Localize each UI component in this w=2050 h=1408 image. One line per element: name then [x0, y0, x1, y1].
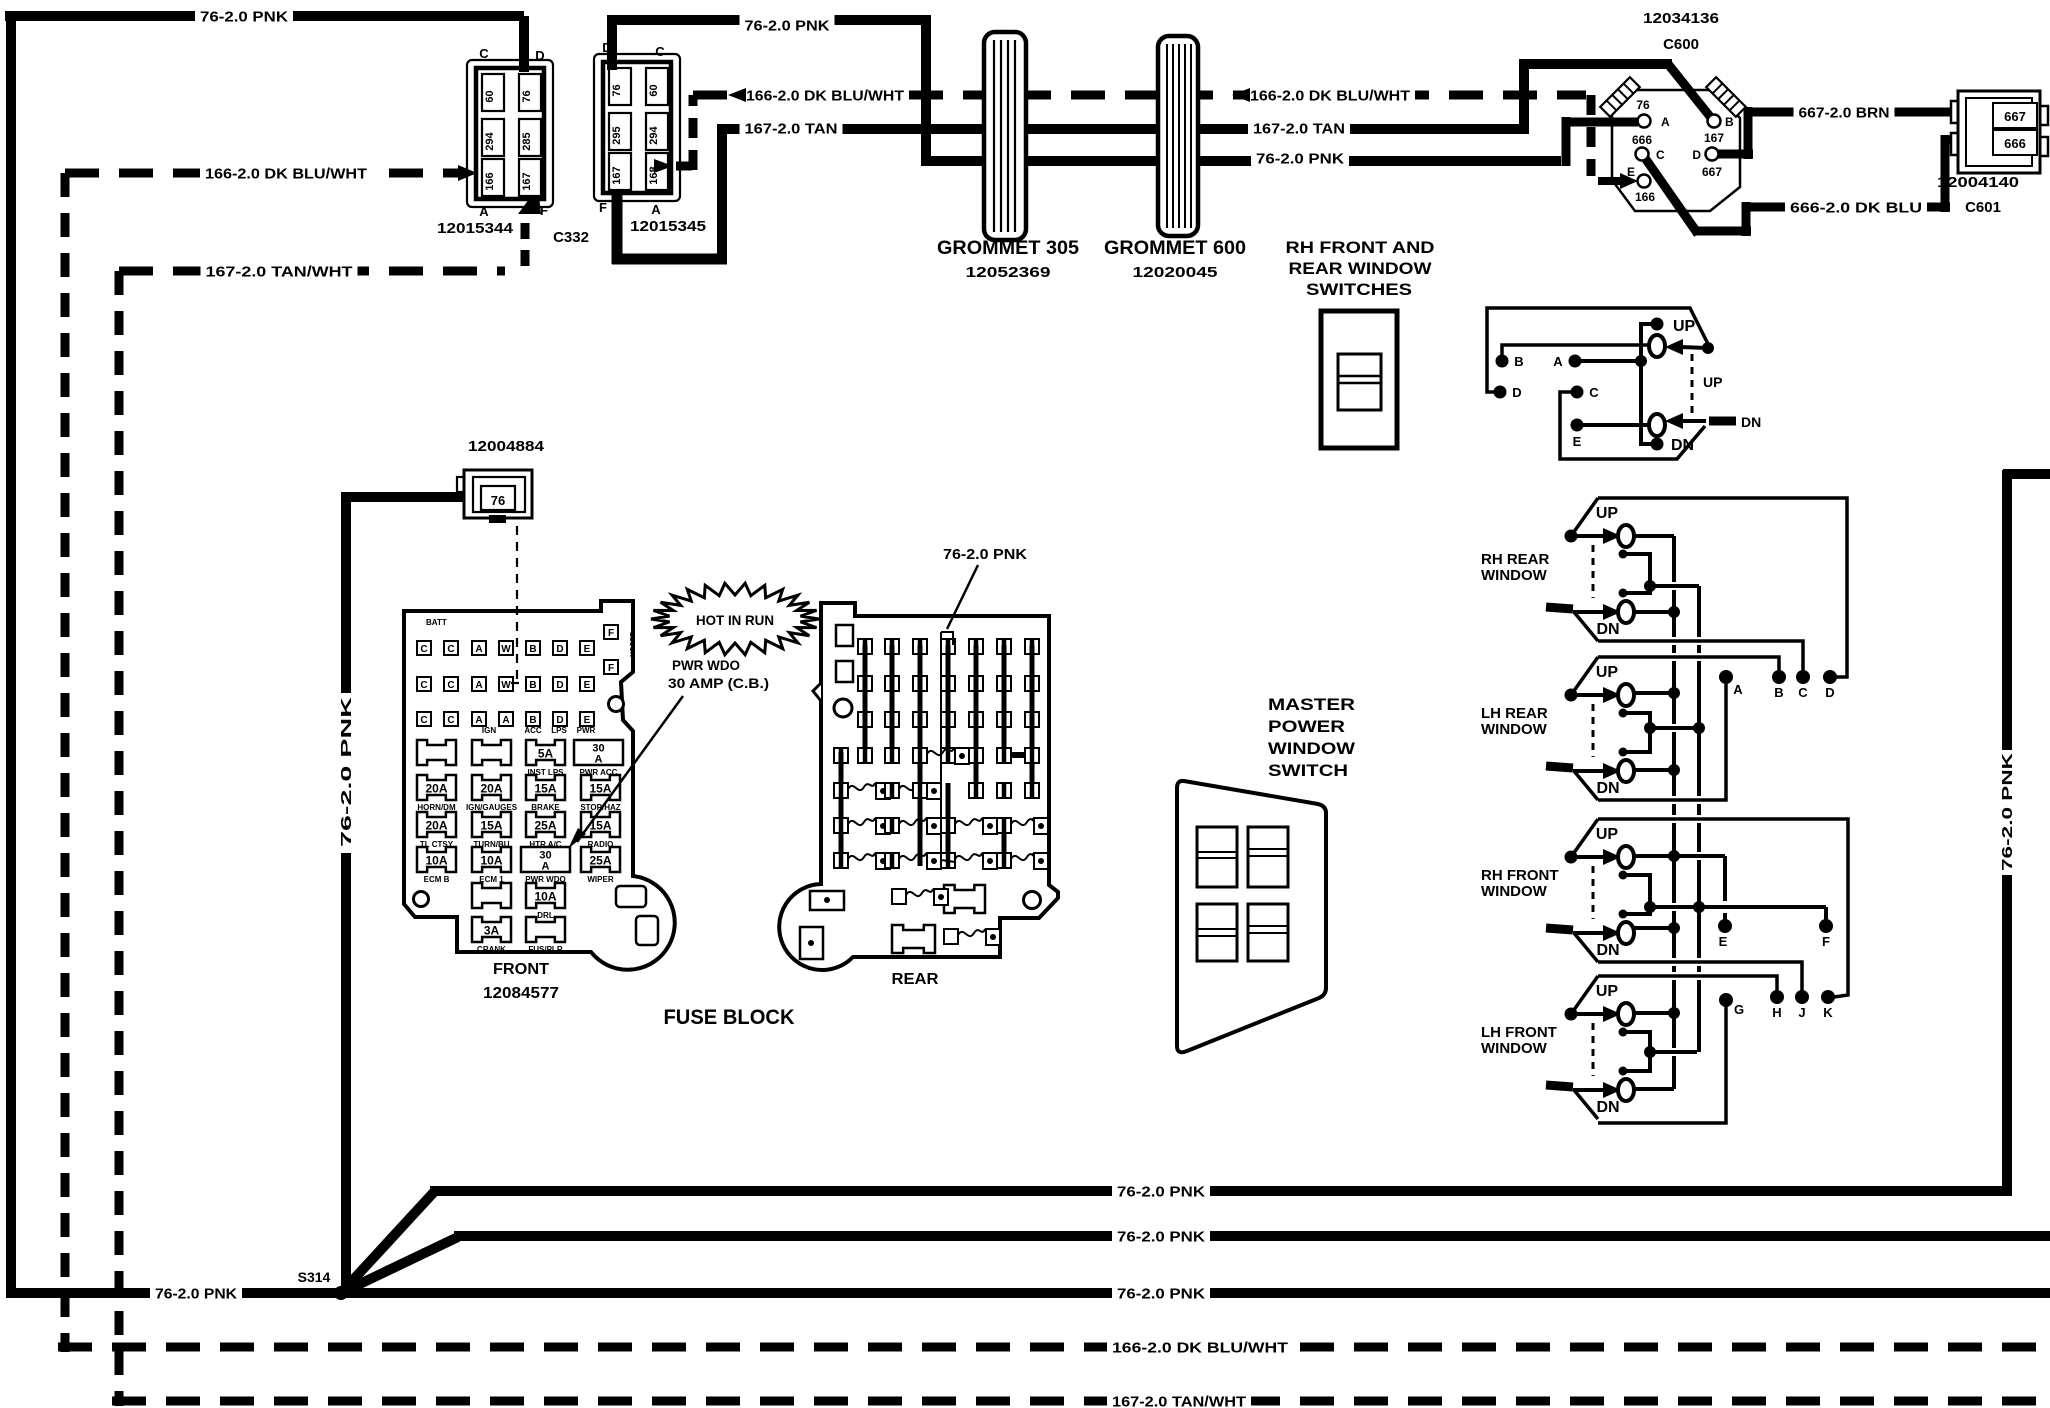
terminal B	[1772, 670, 1786, 684]
svg-text:A: A	[1733, 682, 1743, 697]
switch LH REAR UP arrow	[1571, 693, 1604, 697]
svg-text:76: 76	[491, 493, 505, 508]
splice S314	[334, 1286, 348, 1300]
svg-text:MASTER: MASTER	[1268, 695, 1355, 714]
wire LH REAR DN to bus1	[1634, 768, 1674, 772]
fuse PWR WDO 30A	[521, 847, 570, 872]
switch RH REAR WINDOW outline top diagonal	[1571, 498, 1598, 536]
pin 167	[609, 153, 631, 190]
fuse row A	[417, 740, 456, 765]
terminal D	[1823, 670, 1837, 684]
svg-text:C: C	[1656, 148, 1665, 162]
svg-text:ACC: ACC	[524, 726, 542, 735]
svg-text:76-2.0 PNK: 76-2.0 PNK	[338, 697, 355, 847]
wire 76-2.0 PNK riser into C332 pin D	[519, 16, 529, 72]
svg-text:30 AMP (C.B.): 30 AMP (C.B.)	[668, 675, 769, 691]
svg-text:A: A	[475, 715, 482, 726]
label 76-2.0 PNK bottom run 1	[1112, 1180, 1210, 1202]
grommet 600	[1158, 36, 1198, 236]
svg-text:E: E	[1719, 934, 1728, 949]
front block cutout 1	[616, 886, 646, 907]
svg-text:K: K	[1823, 1005, 1833, 1020]
wire 667-2.0 BRN to C601	[1886, 108, 1958, 117]
svg-text:C: C	[420, 680, 427, 691]
switch RH FRONT outline bottom diagonal	[1574, 933, 1598, 962]
svg-text:C: C	[1798, 685, 1808, 700]
svg-text:UP: UP	[1596, 664, 1619, 681]
terminal C	[1796, 670, 1810, 684]
grommet 305	[984, 32, 1026, 240]
pin 76	[519, 74, 541, 111]
svg-text:B: B	[529, 644, 536, 655]
arrow into C332 pin F	[518, 187, 541, 214]
svg-text:UP: UP	[1596, 983, 1619, 1000]
C601 pin 666	[1993, 130, 2037, 155]
svg-text:RH FRONT AND: RH FRONT AND	[1286, 238, 1435, 257]
rear block left notch	[813, 683, 821, 701]
terminal G	[1719, 993, 1733, 1007]
fuse row D	[417, 847, 456, 872]
svg-text:DN: DN	[1596, 942, 1619, 959]
fuse block REAR outline	[779, 603, 1058, 970]
arrow into C332 pin 166	[458, 165, 477, 181]
rear block vertical buses	[863, 645, 868, 760]
label 167-2.0 TAN/WHT bottom	[1107, 1390, 1251, 1408]
svg-text:GROMMET 600: GROMMET 600	[1104, 238, 1246, 259]
label 76-2.0 PNK bottom-left	[150, 1282, 242, 1304]
svg-text:B: B	[1774, 685, 1783, 700]
svg-text:A: A	[502, 715, 509, 726]
front block F cavity boxes	[604, 625, 618, 639]
svg-text:76-2.0 PNK: 76-2.0 PNK	[1256, 150, 1344, 167]
svg-text:12004884: 12004884	[468, 438, 545, 455]
rear block H-bridges	[948, 752, 976, 758]
svg-text:D: D	[1692, 148, 1701, 162]
pin 76	[609, 68, 631, 105]
svg-text:C: C	[447, 715, 454, 726]
switch RH REAR DN contact	[1618, 601, 1634, 623]
svg-text:D: D	[535, 48, 544, 63]
wire A to bus	[1575, 359, 1641, 363]
svg-text:C: C	[479, 46, 489, 61]
svg-text:10A: 10A	[425, 854, 447, 868]
svg-text:167: 167	[1704, 131, 1724, 145]
wire 76-2.0 PNK bottom horizontal through S314	[11, 1288, 2050, 1298]
svg-text:A: A	[479, 204, 489, 219]
wire LH REAR UP to bus1	[1634, 691, 1674, 695]
bus wire 2 (common feed)	[1697, 586, 1701, 637]
svg-text:76: 76	[611, 84, 623, 96]
svg-text:W: W	[501, 644, 511, 655]
svg-text:WINDOW: WINDOW	[1268, 739, 1356, 758]
svg-text:CRANK: CRANK	[477, 945, 506, 954]
wire 76-2.0 PNK riser to C600 pin A	[1562, 117, 1571, 166]
rocker switch drawing	[1321, 311, 1397, 448]
wire RH FRONT common to terminal F	[1650, 905, 1826, 909]
switch LH REAR DN arrow	[1573, 769, 1604, 773]
switch LH REAR WINDOW outline top diagonal	[1571, 657, 1598, 695]
label 166-2.0 DK BLU/WHT left of grommets	[741, 84, 909, 106]
pin 294	[646, 113, 668, 150]
svg-text:12004140: 12004140	[1937, 174, 2019, 191]
svg-text:76-2.0 PNK: 76-2.0 PNK	[1117, 1228, 1205, 1245]
svg-text:B: B	[529, 715, 536, 726]
svg-text:PWR: PWR	[577, 726, 596, 735]
svg-text:FRONT: FRONT	[493, 961, 549, 978]
svg-text:DN: DN	[1596, 621, 1619, 638]
svg-text:5A: 5A	[538, 747, 554, 761]
wire C to bottom outline	[1560, 392, 1705, 459]
C600 pin D	[1706, 148, 1719, 161]
svg-text:666-2.0 DK BLU: 666-2.0 DK BLU	[1790, 199, 1922, 216]
svg-text:166-2.0 DK BLU/WHT: 166-2.0 DK BLU/WHT	[1250, 87, 1410, 104]
svg-text:LH FRONT: LH FRONT	[1481, 1024, 1557, 1041]
bus wire 1 (UP/DN feed)	[1672, 536, 1676, 582]
connector C600 octagon body	[1612, 90, 1740, 211]
svg-text:DRL: DRL	[537, 911, 554, 920]
svg-text:C: C	[447, 644, 454, 655]
svg-text:285: 285	[521, 132, 533, 150]
svg-text:D: D	[1512, 385, 1521, 400]
master switch rocker 1	[1197, 827, 1237, 887]
fuse PWR ACC 30A	[574, 740, 623, 765]
svg-text:SWITCHES: SWITCHES	[1306, 280, 1412, 299]
rear block row 4 clips	[834, 748, 848, 763]
pin 295	[609, 113, 631, 150]
svg-text:76-2.0 PNK: 76-2.0 PNK	[1117, 1285, 1205, 1302]
svg-text:RH FRONT: RH FRONT	[1481, 867, 1559, 884]
svg-text:REAR: REAR	[892, 971, 939, 988]
svg-text:166-2.0 DK BLU/WHT: 166-2.0 DK BLU/WHT	[1112, 1339, 1288, 1356]
wire 166-2.0 DK BLU/WHT dashed bottom horizontal	[58, 1343, 2050, 1352]
master switch body	[1177, 781, 1326, 1052]
svg-text:UP: UP	[1673, 318, 1696, 335]
switch RH FRONT DN stub	[1546, 928, 1573, 930]
svg-text:C: C	[447, 680, 454, 691]
svg-text:DN: DN	[1671, 437, 1694, 454]
rear block lower wavy pairs	[892, 889, 906, 904]
label 76-2.0 PNK bottom run 3	[1112, 1282, 1210, 1304]
wire LH FRONT top outline to terminal H	[1598, 976, 1777, 991]
switch LH FRONT UP arrow	[1571, 1012, 1604, 1016]
RH switch DN stub	[1709, 417, 1736, 426]
label 166-2.0 DK BLU/WHT bottom	[1107, 1336, 1293, 1358]
fuse row B	[417, 775, 456, 800]
svg-text:D: D	[556, 715, 563, 726]
terminal A	[1719, 670, 1733, 684]
wire 76-2.0 PNK from C332 second half	[607, 20, 617, 70]
svg-text:20A: 20A	[425, 782, 447, 796]
svg-text:76-2.0 PNK: 76-2.0 PNK	[745, 17, 830, 34]
fuse block FRONT outline	[404, 601, 675, 970]
svg-text:WIPER: WIPER	[587, 875, 613, 884]
switch LH FRONT UP contact	[1618, 1003, 1634, 1025]
svg-text:666: 666	[1632, 133, 1652, 147]
svg-text:20A: 20A	[425, 819, 447, 833]
RH switch outline left hook	[1487, 308, 1710, 392]
switch RH FRONT DN contact	[1618, 922, 1634, 944]
svg-text:667: 667	[1702, 165, 1722, 179]
wire RH REAR top outline to terminal D	[1598, 498, 1847, 677]
label 76-2.0 PNK bottom run 2	[1112, 1225, 1210, 1247]
wire LH FRONT DN to bus1 end	[1634, 1087, 1674, 1091]
svg-text:G: G	[1734, 1002, 1744, 1017]
RH switch UP terminal	[1651, 318, 1664, 331]
fuse row E	[472, 883, 511, 908]
svg-text:UP: UP	[1596, 505, 1619, 522]
pin 166	[482, 159, 504, 196]
svg-text:295: 295	[611, 126, 623, 144]
svg-text:F: F	[1822, 934, 1830, 949]
C600 lock tab right	[1706, 77, 1746, 117]
svg-text:DN: DN	[1741, 414, 1761, 430]
switch LH FRONT DN arrow	[1573, 1088, 1604, 1092]
switch LH REAR UP node	[1565, 689, 1578, 702]
svg-text:667: 667	[2004, 109, 2026, 124]
rear block hole right	[1024, 892, 1041, 909]
svg-text:25A: 25A	[589, 854, 611, 868]
terminal J	[1795, 990, 1809, 1004]
pin 167	[519, 159, 541, 196]
svg-text:B: B	[1725, 115, 1734, 129]
svg-text:166-2.0 DK BLU/WHT: 166-2.0 DK BLU/WHT	[746, 87, 904, 104]
svg-text:IGN/GAUGES: IGN/GAUGES	[466, 803, 518, 812]
wire 76-2.0 PNK right vertical top exit	[2003, 469, 2050, 479]
switch RH REAR UP-DN dashed link	[1592, 545, 1595, 598]
RH switch DN contact	[1665, 413, 1683, 429]
switch RH REAR common contacts	[1619, 550, 1628, 559]
wire LH FRONT bottom outline to terminal G	[1598, 1006, 1726, 1123]
svg-text:REAR WINDOW: REAR WINDOW	[1289, 259, 1433, 278]
svg-text:C332: C332	[553, 229, 589, 246]
wire LH REAR top outline to terminal B	[1598, 657, 1779, 671]
redraw wires inside C600	[1668, 64, 1712, 119]
label 167-2.0 TAN left of grommets	[740, 117, 843, 139]
svg-text:A: A	[651, 202, 661, 217]
wire 166-2.0 DK BLU/WHT dashed horizontal upper-left	[65, 169, 462, 178]
wire LH FRONT common to bus2 end	[1651, 1050, 1697, 1054]
svg-text:167: 167	[611, 166, 623, 184]
svg-text:76-2.0 PNK: 76-2.0 PNK	[1117, 1183, 1205, 1200]
front block cavity letter rows	[417, 641, 431, 655]
label 167-2.0 TAN/WHT upper-left	[201, 260, 358, 282]
splice S314 branch diagonal to 1191 run	[341, 1192, 434, 1293]
svg-text:F: F	[608, 663, 614, 674]
svg-text:12015344: 12015344	[437, 220, 514, 237]
C600 pin E	[1638, 175, 1651, 188]
wire 76-2.0 PNK right vertical	[2002, 470, 2012, 1196]
svg-text:E: E	[1627, 165, 1635, 179]
pin 60	[646, 68, 668, 105]
front block mount hole left	[414, 892, 429, 907]
switch RH FRONT DN arrow	[1573, 931, 1604, 935]
svg-text:76-2.0 PNK: 76-2.0 PNK	[1999, 753, 2016, 871]
arrow into C600 pin E	[1598, 177, 1622, 185]
wire 76-2.0 PNK horizontal run 2	[454, 1231, 2050, 1241]
svg-text:B: B	[1514, 354, 1523, 369]
wire 667-2.0 BRN from C600 pin D	[1716, 150, 1753, 159]
svg-text:HORN/DM: HORN/DM	[417, 803, 456, 812]
wire 166-2.0 DK BLU/WHT dashed from C332 pin A to C600	[654, 159, 673, 173]
svg-text:F: F	[608, 628, 614, 639]
svg-text:F: F	[599, 200, 607, 215]
svg-text:A: A	[475, 680, 482, 691]
svg-text:PWR WDO: PWR WDO	[672, 657, 740, 673]
switch RH FRONT UP arrow	[1571, 855, 1604, 859]
label 76-2.0 PNK right of grommets	[1251, 147, 1349, 169]
RH switch corner node	[1702, 342, 1714, 354]
switch LH FRONT UP node	[1565, 1008, 1578, 1021]
svg-text:167-2.0 TAN: 167-2.0 TAN	[1253, 120, 1345, 137]
switch LH REAR DN stub	[1546, 766, 1573, 768]
svg-text:10A: 10A	[480, 854, 502, 868]
HOT IN RUN starburst	[651, 583, 819, 654]
wire 76-2.0 PNK into connector 12004884	[341, 492, 466, 502]
wire 76-2.0 PNK vertical up from S314 to fuse block connector	[341, 497, 351, 1293]
svg-text:W: W	[501, 680, 511, 691]
RH switch UP contact	[1665, 339, 1683, 355]
rear block row 6	[834, 818, 848, 833]
svg-text:WINDOW: WINDOW	[1481, 721, 1548, 738]
switch RH REAR UP contact	[1618, 525, 1634, 547]
svg-text:BATT: BATT	[426, 618, 447, 627]
svg-text:LH REAR: LH REAR	[1481, 705, 1548, 722]
pin 168	[646, 153, 668, 190]
svg-text:167-2.0 TAN: 167-2.0 TAN	[745, 120, 838, 137]
svg-text:167-2.0 TAN/WHT: 167-2.0 TAN/WHT	[1112, 1393, 1246, 1408]
label 167-2.0 TAN right of grommets	[1248, 117, 1350, 139]
svg-text:A: A	[542, 861, 550, 873]
svg-text:A: A	[1661, 115, 1670, 129]
svg-text:D: D	[556, 680, 563, 691]
label 76-2.0 PNK top-left	[195, 5, 293, 27]
svg-text:POWER: POWER	[1268, 717, 1345, 736]
wire B to UP contact	[1502, 345, 1650, 361]
RH switch internal bus	[1641, 324, 1657, 444]
svg-text:12052369: 12052369	[966, 264, 1051, 281]
wire LH REAR bottom outline to terminal A	[1598, 684, 1726, 800]
wire LH REAR common to bus2	[1650, 726, 1699, 730]
label 166-2.0 DK BLU/WHT right of grommets	[1245, 84, 1415, 106]
svg-text:20A: 20A	[480, 782, 502, 796]
rear block mount hole	[834, 699, 852, 717]
master switch rocker 3	[1197, 904, 1237, 961]
svg-text:C: C	[420, 715, 427, 726]
rear block row 7	[834, 853, 848, 868]
wire RH REAR DN to bus1	[1634, 610, 1674, 614]
fuse row C	[417, 812, 456, 837]
svg-text:76-2.0 PNK: 76-2.0 PNK	[155, 1285, 237, 1302]
fuse row F	[472, 917, 511, 942]
svg-text:10A: 10A	[534, 890, 556, 904]
master switch rocker 4	[1248, 904, 1288, 961]
svg-text:WINDOW: WINDOW	[1481, 1040, 1548, 1057]
wire 167-2.0 TAN/WHT dashed elbow up	[521, 222, 530, 266]
RH switch UP-DN dashed link	[1691, 354, 1694, 414]
splice S314 branch diagonal to 1236 run	[341, 1237, 458, 1293]
svg-text:H: H	[1772, 1005, 1781, 1020]
terminal E	[1718, 919, 1732, 933]
switch RH FRONT WINDOW outline top diagonal	[1571, 819, 1598, 857]
svg-text:HOT IN RUN: HOT IN RUN	[696, 612, 774, 628]
svg-text:25A: 25A	[534, 819, 556, 833]
wire 666-2.0 DK BLU to C601	[1920, 203, 1950, 212]
wire 666-2.0 DK BLU from C600 pin C	[1645, 158, 1698, 234]
RH switch terminal E	[1571, 419, 1584, 432]
pin 60	[482, 74, 504, 111]
svg-text:60: 60	[484, 90, 496, 102]
wire LH FRONT UP to bus1	[1634, 1011, 1674, 1015]
svg-text:UP: UP	[1596, 826, 1619, 843]
svg-text:667-2.0 BRN: 667-2.0 BRN	[1799, 104, 1890, 121]
svg-text:76-2.0 PNK: 76-2.0 PNK	[200, 8, 288, 25]
switch LH FRONT DN contact	[1618, 1079, 1634, 1101]
switch RH FRONT common contacts	[1619, 871, 1628, 880]
svg-text:DN: DN	[1596, 780, 1619, 797]
svg-text:LPS: LPS	[551, 726, 567, 735]
wire RH REAR bottom outline to terminal C	[1598, 641, 1803, 671]
wire E to DN contact	[1577, 423, 1649, 427]
switch LH REAR DN contact	[1618, 760, 1634, 782]
svg-text:RH REAR: RH REAR	[1481, 551, 1550, 568]
svg-text:76: 76	[1636, 98, 1650, 112]
switch RH REAR outline bottom diagonal	[1574, 612, 1598, 641]
svg-text:12020045: 12020045	[1133, 264, 1218, 281]
switch LH FRONT DN stub	[1546, 1085, 1573, 1087]
svg-text:C: C	[1589, 385, 1599, 400]
switch RH REAR UP node	[1565, 530, 1578, 543]
terminal F	[1819, 919, 1833, 933]
arrow on 166 wire left of label	[728, 88, 746, 102]
svg-text:E: E	[584, 644, 591, 655]
svg-text:166-2.0 DK BLU/WHT: 166-2.0 DK BLU/WHT	[205, 165, 367, 182]
wire RH REAR UP to bus1	[1634, 534, 1674, 538]
switch LH FRONT outline bottom diagonal	[1574, 1090, 1598, 1119]
svg-text:WINDOW: WINDOW	[1481, 567, 1548, 584]
svg-text:76: 76	[521, 90, 533, 102]
C601 pin 667	[1993, 103, 2037, 128]
rear block row 5	[834, 783, 848, 798]
trace 76 inside rear block	[941, 632, 953, 645]
svg-text:C600: C600	[1663, 36, 1699, 53]
svg-text:15A: 15A	[589, 782, 611, 796]
RH switch terminal A	[1569, 355, 1582, 368]
switch LH REAR UP-DN dashed link	[1592, 704, 1595, 757]
rear block slot boxes	[836, 625, 853, 646]
svg-text:76-2.0 PNK: 76-2.0 PNK	[943, 546, 1027, 563]
front block mount hole right	[609, 697, 624, 712]
rear block lower fuses	[944, 885, 985, 913]
svg-text:666: 666	[2004, 136, 2026, 151]
switch RH FRONT UP-DN dashed link	[1592, 866, 1595, 919]
pin 285	[519, 119, 541, 156]
wire 166-2.0 DK BLU/WHT dashed left vertical	[61, 173, 70, 1352]
terminal K	[1821, 990, 1835, 1004]
connector C332 half 12015344	[467, 60, 553, 207]
svg-text:12034136: 12034136	[1643, 10, 1719, 27]
svg-text:F: F	[540, 203, 548, 218]
switch RH REAR DN arrow	[1573, 610, 1604, 614]
svg-text:GROMMET 305: GROMMET 305	[937, 238, 1079, 259]
svg-text:167: 167	[521, 172, 533, 190]
svg-text:12015345: 12015345	[630, 218, 706, 235]
wire 167-2.0 TAN/WHT dashed bottom horizontal	[112, 1397, 2050, 1406]
svg-text:SWITCH: SWITCH	[1268, 761, 1348, 780]
front block cutout 2	[636, 916, 658, 945]
switch RH REAR DN stub	[1546, 607, 1573, 609]
switch LH FRONT WINDOW outline top diagonal	[1571, 976, 1598, 1014]
wire RH FRONT top outline to terminal K	[1598, 819, 1848, 997]
